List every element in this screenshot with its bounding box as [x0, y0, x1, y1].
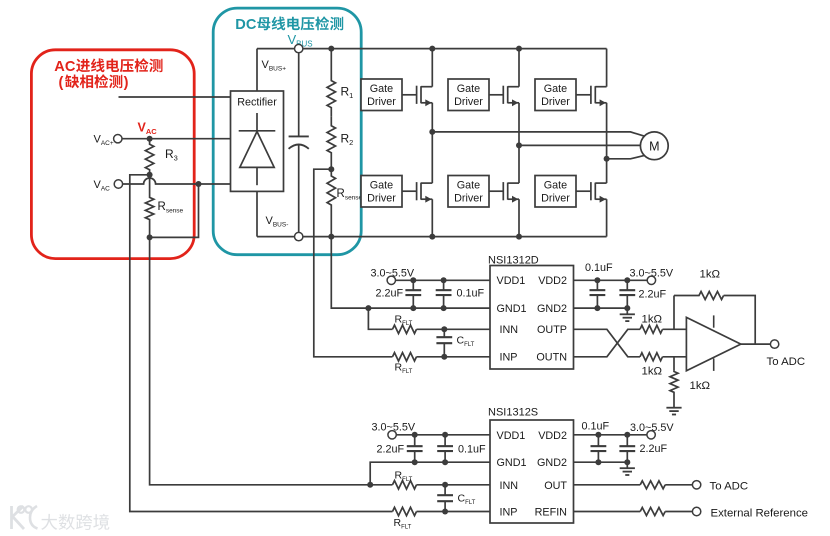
svg-text:(: (: [59, 75, 64, 91]
resistor R3: [145, 139, 153, 175]
svg-text:DC: DC: [235, 17, 257, 33]
rectifier block: [231, 91, 284, 191]
transistor Q3 (high side NMOS): [591, 86, 607, 107]
junction GND1/0.1uF (S): [442, 459, 448, 465]
wire RFLT to INP pin (D): [417, 356, 491, 358]
svg-text:INP: INP: [500, 507, 518, 519]
wire sense node to NSI1312S INP: [130, 175, 393, 512]
label Rsense (DC): [337, 188, 363, 202]
wire VDD1 row (S): [392, 434, 490, 436]
junction CFLT bottom (S): [442, 509, 448, 515]
gate driver box 5: [535, 79, 576, 111]
pin label GND1 (D): [497, 303, 527, 315]
svg-text:Gate: Gate: [370, 180, 393, 192]
svg-text:VDD1: VDD1: [497, 430, 526, 442]
svg-text:VDD2: VDD2: [538, 275, 567, 287]
wire RFLT to INP pin (S): [417, 511, 491, 513]
resistor 1k (lower input): [640, 353, 663, 361]
resistor R2: [327, 117, 335, 170]
pin label GND1 (S): [497, 457, 527, 469]
label 3.0~5.5V (S left): [372, 422, 416, 434]
label VBUS-: [266, 215, 289, 229]
junction VDD2/2.2uF (S): [624, 432, 630, 438]
wire OUT to terminal: [665, 484, 692, 486]
wire RFLT to INN pin (D): [417, 328, 491, 330]
svg-text:OUT: OUT: [544, 480, 567, 492]
junction leg 1 bottom rail: [429, 234, 435, 240]
junction VDD2/0.1uF: [594, 277, 600, 283]
wire gate lead Q5 (low side): [489, 190, 504, 192]
svg-text:OUTN: OUTN: [536, 352, 567, 364]
junction R2 / Rsense (sense node): [328, 166, 334, 172]
resistor RFLT (S INN): [393, 481, 417, 489]
junction phase node A: [429, 129, 435, 135]
junction GND1/2.2uF: [410, 305, 416, 311]
wire VDD2 row (S): [574, 434, 652, 436]
label CFLT (S): [458, 493, 476, 507]
label AC进线电压检测: [54, 58, 162, 75]
junction VDD2/2.2uF: [624, 277, 630, 283]
pin label VDD2 (S): [538, 430, 567, 442]
resistor RFLT (D INP): [393, 353, 417, 361]
svg-text:VDD2: VDD2: [538, 430, 567, 442]
svg-text:REFIN: REFIN: [535, 507, 567, 519]
wire GND1 branch to INN: [368, 308, 392, 329]
label To ADC (S): [710, 480, 749, 492]
capacitor 0.1uF (D right): [590, 280, 606, 308]
label 0.1uF (S left): [458, 444, 486, 456]
terminal VAC-: [114, 180, 122, 188]
svg-text:GND2: GND2: [537, 303, 567, 315]
junction Rsense bottom: [147, 234, 153, 240]
label NSI1312D: [488, 254, 539, 266]
label R2: [341, 132, 354, 148]
capacitor 0.1uF (S right): [591, 435, 607, 462]
terminal 3.0~5.5V (S right): [647, 431, 655, 439]
svg-text:INP: INP: [500, 352, 518, 364]
label Rectifier: [237, 97, 277, 109]
annotation box DC bus voltage detection (teal): [213, 8, 361, 255]
svg-text:1kΩ: 1kΩ: [700, 269, 721, 281]
wire VAC- line with hop: [118, 178, 230, 184]
wire gate lead Q2 (high side): [489, 94, 504, 96]
gate driver box 4: [448, 176, 489, 208]
motor M: [640, 132, 668, 160]
junction GND2/0.1uF: [594, 305, 600, 311]
transistor Q5 (low side NMOS): [503, 182, 519, 203]
pin label OUTP (D): [537, 324, 567, 336]
wire GND2 row (S): [574, 461, 628, 463]
svg-text:0.1uF: 0.1uF: [585, 262, 613, 274]
svg-text:): ): [124, 75, 129, 91]
wire gate lead Q1 (high side): [402, 94, 417, 96]
wire DC sense node to NSI1312D INP: [314, 169, 393, 357]
ground GND2 (D): [620, 308, 635, 321]
svg-text:0.1uF: 0.1uF: [582, 421, 610, 433]
junction R3 bottom node: [147, 172, 153, 178]
junction CFLT bottom (D): [441, 354, 447, 360]
label VBUS (teal): [288, 32, 313, 49]
resistor Rsense (DC): [327, 169, 335, 236]
wire OUT row: [574, 484, 641, 486]
wire GND1 row (S): [370, 462, 490, 485]
label 1k lower: [642, 366, 663, 378]
label R3: [165, 147, 178, 163]
svg-text:NSI1312D: NSI1312D: [488, 254, 539, 266]
wire rectifier to bottom rail: [256, 191, 258, 236]
junction VDD2/0.1uF (S): [595, 432, 601, 438]
svg-text:INN: INN: [500, 480, 519, 492]
diode (inside rectifier): [239, 113, 276, 185]
junction phase node B: [516, 142, 522, 148]
label RFLT (S INN): [395, 470, 413, 484]
wire phase B to motor: [519, 144, 640, 146]
svg-text:INN: INN: [500, 324, 519, 336]
junction GND1 / INN line (S): [367, 482, 373, 488]
terminal 3.0~5.5V (D left): [387, 276, 395, 284]
label 0.1uF (D right): [585, 262, 613, 274]
svg-text:GND1: GND1: [497, 303, 527, 315]
label VAC+: [94, 134, 114, 148]
pin label OUTN (D): [536, 352, 567, 364]
pin label REFIN (S): [535, 507, 567, 519]
label VAC-: [94, 179, 111, 193]
svg-text:Driver: Driver: [541, 193, 570, 205]
wire VDD2 row (D): [574, 279, 652, 281]
svg-text:Driver: Driver: [367, 193, 396, 205]
junction phase node C: [604, 156, 610, 162]
svg-text:Gate: Gate: [544, 180, 567, 192]
junction CFLT top (D): [441, 326, 447, 332]
junction leg 2 bottom rail: [516, 234, 522, 240]
pin label INN (D): [500, 324, 519, 336]
svg-text:2.2uF: 2.2uF: [376, 288, 404, 300]
wire gate lead Q6 (low side): [576, 190, 591, 192]
label 1k upper: [642, 314, 663, 326]
wire rectifier output to VBUS rail: [256, 49, 258, 91]
label 3.0~5.5V (D right): [630, 268, 674, 280]
svg-text:M: M: [649, 139, 659, 153]
svg-text:Gate: Gate: [370, 83, 393, 95]
label CFLT (D): [457, 335, 475, 349]
resistor RFLT (S INP): [393, 507, 417, 515]
label 2.2uF (S left): [377, 444, 405, 456]
wire REFIN to terminal: [665, 511, 692, 513]
node VBUS- (open terminal): [295, 232, 303, 240]
svg-text:VDD1: VDD1: [497, 275, 526, 287]
junction GND1 / INN branch: [365, 305, 371, 311]
svg-text:Gate: Gate: [457, 83, 480, 95]
wire gate lead Q4 (low side): [402, 190, 417, 192]
pin label INN (S): [500, 480, 519, 492]
terminal External Reference: [692, 507, 700, 515]
label 3.0~5.5V (S right): [630, 422, 674, 434]
capacitor 0.1uF (D left): [436, 280, 452, 308]
junction leg 1 top rail: [429, 46, 435, 52]
svg-text:1kΩ: 1kΩ: [690, 380, 711, 392]
svg-text:Gate: Gate: [457, 180, 480, 192]
wire phase C to motor: [607, 155, 645, 158]
IC NSI1312D box: [490, 266, 574, 370]
pin label INP (D): [500, 352, 518, 364]
resistor 1k (upper input): [640, 325, 663, 333]
label 2.2uF (D left): [376, 288, 404, 300]
capacitor CFLT (S): [437, 485, 453, 512]
label VBUS+: [262, 59, 287, 73]
wire divider node down: [673, 357, 675, 371]
wire Rsense bottom loop to VAC- line: [150, 184, 199, 237]
svg-text:To ADC: To ADC: [767, 356, 806, 368]
label NSI1312S: [488, 407, 538, 419]
svg-text:OUTP: OUTP: [537, 324, 567, 336]
svg-text:Gate: Gate: [544, 83, 567, 95]
transistor Q2 (high side NMOS): [503, 86, 519, 107]
junction GND1/0.1uF: [441, 305, 447, 311]
pin label VDD1 (S): [497, 430, 526, 442]
label 2.2uF (S right): [640, 443, 668, 455]
wire feedback node up: [673, 296, 675, 330]
pin label OUT (S): [544, 480, 567, 492]
wire VDD1 row (D): [391, 279, 490, 281]
svg-text:0.1uF: 0.1uF: [458, 444, 486, 456]
label Rsense (AC): [158, 201, 184, 215]
capacitor 2.2uF (D right): [619, 280, 635, 308]
svg-text:Driver: Driver: [367, 96, 396, 108]
wire RFLT to INN pin (S): [417, 484, 491, 486]
svg-text:AC: AC: [54, 59, 76, 75]
junction VDD1/2.2uF: [410, 277, 416, 283]
svg-text:Rectifier: Rectifier: [237, 97, 277, 109]
svg-text:1kΩ: 1kΩ: [642, 314, 663, 326]
wire GND2 row (D): [574, 307, 628, 309]
pin label GND2 (S): [537, 457, 567, 469]
gate driver box 6: [535, 176, 576, 208]
wire VAC+ to rectifier: [118, 138, 231, 140]
label RFLT (D INP): [395, 362, 413, 376]
pin label GND2 (D): [537, 303, 567, 315]
label 1k feedback: [700, 269, 721, 281]
wire REFIN row: [574, 511, 641, 513]
gate driver box 2: [361, 176, 402, 208]
wire Rsense bottom to NSI1312S INN: [150, 237, 393, 484]
transistor Q1 (high side NMOS): [417, 86, 433, 107]
svg-text:GND2: GND2: [537, 457, 567, 469]
terminal To ADC (D): [770, 340, 778, 348]
junction Rsense / bottom rail: [328, 234, 334, 240]
junction GND2/2.2uF: [624, 305, 630, 311]
wire AC phase input to rectifier: [119, 96, 231, 98]
ground (opamp divider): [666, 408, 681, 415]
svg-text:Driver: Driver: [454, 96, 483, 108]
svg-text:2.2uF: 2.2uF: [639, 289, 667, 301]
svg-text:To ADC: To ADC: [710, 480, 749, 492]
wire phase A to motor: [432, 132, 644, 136]
resistor Rsense (AC): [145, 175, 153, 238]
wire VBUS- bottom rail: [257, 236, 607, 238]
junction GND2/2.2uF (S): [624, 459, 630, 465]
junction VDD1/0.1uF: [441, 277, 447, 283]
node VBUS (open terminal): [295, 44, 303, 52]
wire opamp output: [741, 343, 775, 345]
label （缺相检测）: [59, 74, 129, 91]
label 0.1uF (D left): [457, 288, 485, 300]
label 3.0~5.5V (D left): [371, 268, 415, 280]
label 2.2uF (D right): [639, 289, 667, 301]
junction VDD1/0.1uF (S): [442, 432, 448, 438]
svg-text:2.2uF: 2.2uF: [377, 444, 405, 456]
label RFLT (S INP): [394, 517, 412, 531]
wire phase leg 1: [431, 49, 433, 237]
annotation box AC line voltage detection (red): [31, 50, 194, 259]
label 1k to ground: [690, 380, 711, 392]
svg-text:External Reference: External Reference: [711, 507, 809, 519]
wire to opamp non-inverting node: [663, 356, 687, 358]
wire feedback to output: [724, 296, 756, 345]
label External Reference: [711, 507, 809, 519]
svg-text:Driver: Driver: [541, 96, 570, 108]
wire phase leg 3: [606, 49, 608, 237]
terminal To ADC (S): [692, 481, 700, 489]
op-amp U1: [686, 315, 740, 371]
wire OUTN crossover: [574, 329, 641, 357]
terminal 3.0~5.5V (S left): [388, 431, 396, 439]
label VAC (red): [138, 121, 158, 137]
junction GND2/0.1uF (S): [595, 459, 601, 465]
label RFLT (D INN): [395, 314, 413, 328]
wire phase leg 2: [518, 49, 520, 237]
label To ADC (D): [767, 356, 806, 368]
svg-text:2.2uF: 2.2uF: [640, 443, 668, 455]
svg-text:1kΩ: 1kΩ: [642, 366, 663, 378]
IC NSI1312S box: [490, 420, 574, 523]
wire OUTP crossover: [574, 329, 641, 357]
gate driver box 3: [448, 79, 489, 111]
junction loop / VAC- line: [196, 181, 202, 187]
transistor Q4 (low side NMOS): [417, 182, 433, 203]
junction VDD1/2.2uF (S): [412, 432, 418, 438]
resistor R1: [327, 49, 335, 117]
wire to opamp inverting node: [663, 328, 687, 330]
junction leg 2 top rail: [516, 46, 522, 52]
label DC母线电压检测: [235, 16, 343, 33]
resistor on OUT: [640, 481, 665, 489]
capacitor 2.2uF (S left): [407, 435, 423, 462]
pin label VDD1 (D): [497, 275, 526, 287]
wire VBUS+ top rail: [257, 48, 607, 50]
resistor 1k to ground: [670, 371, 678, 408]
resistor RFLT (D INN): [393, 325, 417, 333]
watermark logo and text: [12, 506, 110, 530]
transistor Q6 (low side NMOS): [591, 182, 607, 203]
resistor on REFIN: [640, 508, 665, 516]
resistor 1k feedback: [674, 292, 724, 300]
ground GND2 (S): [620, 462, 635, 475]
capacitor DC bus: [289, 49, 309, 237]
label 0.1uF (S right): [582, 421, 610, 433]
gate driver box 1: [361, 79, 402, 111]
junction rail / R1: [328, 46, 334, 52]
capacitor 2.2uF (D left): [405, 280, 421, 308]
junction GND1/2.2uF (S): [412, 459, 418, 465]
terminal 3.0~5.5V (D right): [647, 276, 655, 284]
capacitor 0.1uF (S left): [437, 435, 453, 462]
label R1: [341, 85, 354, 101]
svg-text:0.1uF: 0.1uF: [457, 288, 485, 300]
junction VAC+ / R3: [147, 136, 153, 142]
svg-text:Driver: Driver: [454, 193, 483, 205]
junction CFLT top (S): [442, 482, 448, 488]
pin label VDD2 (D): [538, 275, 567, 287]
svg-text:GND1: GND1: [497, 457, 527, 469]
terminal VAC+: [114, 135, 122, 143]
wire gate lead Q3 (high side): [576, 94, 591, 96]
capacitor 2.2uF (S right): [619, 435, 635, 462]
wire DC ground to GND1 row: [331, 237, 490, 309]
svg-text:NSI1312S: NSI1312S: [488, 407, 538, 419]
pin label INP (S): [500, 507, 518, 519]
capacitor CFLT (D): [436, 329, 452, 357]
